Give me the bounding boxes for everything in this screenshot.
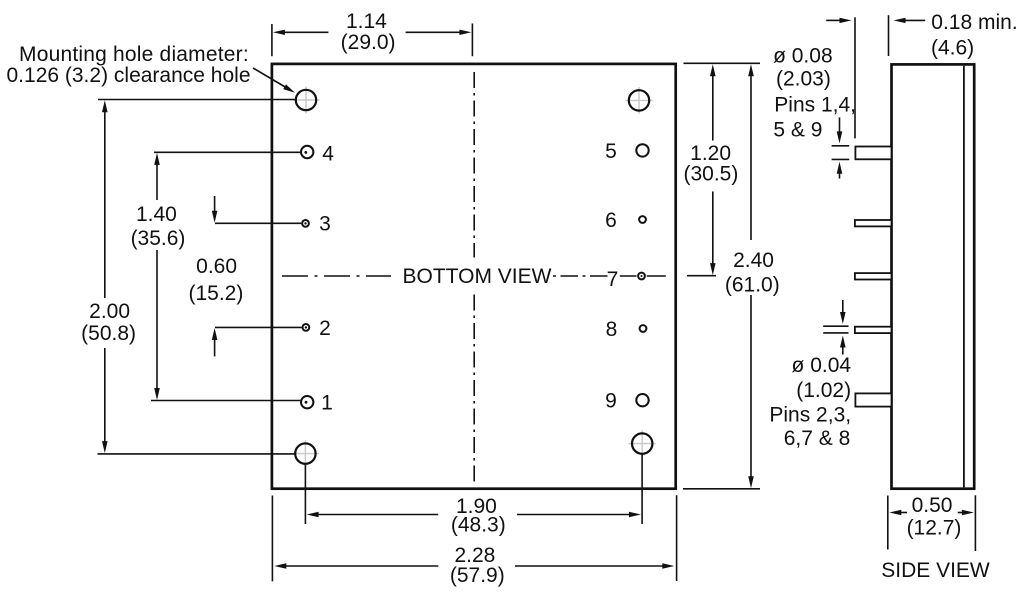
dim 2.28 extension line right — [676, 495, 678, 581]
dim 2.40 line lower — [750, 295, 752, 479]
pin 4 — [301, 146, 313, 158]
extension line hole top-left — [98, 99, 296, 101]
dia 0.04 arrow down — [840, 312, 846, 324]
side pin row4 — [855, 327, 892, 333]
extension line pin 3 — [215, 222, 301, 224]
svg-text:6,7 & 8: 6,7 & 8 — [784, 427, 851, 450]
svg-text:5: 5 — [605, 140, 617, 163]
wire centerline circle-to-edge — [647, 275, 666, 277]
horizontal centerline left segment — [282, 275, 391, 277]
dim 0.60 stub upper — [214, 196, 216, 212]
mounting hole bottom-right crosshair — [629, 430, 656, 457]
dia 0.08 tick top — [832, 145, 850, 147]
dim 1.14 line right — [406, 31, 464, 33]
svg-text:(61.0): (61.0) — [725, 274, 780, 297]
pin 5 — [636, 144, 648, 156]
dim 0.50 arrow left — [889, 510, 901, 515]
svg-text:Mounting hole diameter:: Mounting hole diameter: — [19, 43, 249, 66]
leader arrowhead — [283, 84, 295, 92]
extension line pin 1 — [151, 400, 300, 402]
svg-text:8: 8 — [606, 318, 618, 341]
dim 1.40 line upper — [156, 162, 158, 200]
dim 1.14 arrow right — [459, 30, 471, 35]
dim 0.18 left arrow — [840, 18, 852, 23]
wire centerline 7-to-circle — [620, 275, 637, 277]
extension line hole bottom-left — [98, 453, 295, 455]
dim 0.50 extension line right — [974, 495, 976, 551]
svg-text:0.60: 0.60 — [196, 255, 237, 278]
dim 2.28 arrow right — [662, 563, 674, 568]
extension line pin 2 — [215, 326, 302, 328]
dia 0.04 arrow up stub — [842, 347, 844, 355]
svg-text:ø 0.04: ø 0.04 — [792, 354, 852, 377]
dia 0.04 tick bottom — [823, 332, 848, 334]
svg-text:BOTTOM VIEW: BOTTOM VIEW — [403, 265, 552, 288]
dim 1.20 arrow up — [710, 64, 716, 76]
dim 0.18 right line — [904, 19, 925, 21]
dia 0.08 tick bottom — [832, 158, 850, 160]
pin 8 — [640, 325, 647, 332]
dia 0.04 tick top — [823, 325, 848, 327]
svg-text:(50.8): (50.8) — [81, 322, 136, 345]
svg-text:Pins 2,3,: Pins 2,3, — [769, 404, 851, 427]
leader line hole bottom-left to 1.90 — [304, 464, 306, 524]
dia 0.08 arrow up — [837, 162, 843, 174]
dia 0.08 arrow up stub — [839, 172, 841, 179]
side pin row5 — [855, 393, 891, 406]
pin 7 — [638, 273, 645, 280]
dim 1.20 line lower — [712, 192, 714, 267]
side pin row2 — [855, 220, 892, 226]
dim 2.40 line upper — [750, 74, 752, 240]
dim 2.28 arrow left — [274, 563, 286, 568]
svg-text:9: 9 — [605, 390, 617, 413]
svg-text:(2.03): (2.03) — [776, 67, 831, 90]
pin 3 — [302, 220, 309, 227]
svg-text:4: 4 — [322, 143, 334, 166]
svg-text:5 & 9: 5 & 9 — [773, 118, 822, 141]
svg-text:2.40: 2.40 — [733, 249, 774, 272]
svg-text:(29.0): (29.0) — [341, 31, 396, 54]
dim 1.14 arrow left — [273, 30, 285, 35]
dia 0.04 arrow up — [840, 336, 846, 348]
dim 2.40 arrow up — [748, 64, 754, 76]
pin 1 — [301, 396, 313, 408]
dim 1.90 arrow right — [629, 512, 641, 517]
dia 0.08 arrow down — [837, 131, 843, 143]
svg-text:(15.2): (15.2) — [188, 282, 243, 305]
dim 1.20 line upper — [712, 74, 714, 141]
dim 1.20 arrow down — [710, 263, 716, 275]
dim 0.18 extension line pin tip — [854, 17, 856, 138]
dim 0.18 right arrow — [894, 18, 906, 23]
svg-text:SIDE VIEW: SIDE VIEW — [881, 559, 990, 582]
dim 1.14 line left — [280, 31, 328, 33]
svg-text:(1.02): (1.02) — [796, 379, 851, 402]
svg-text:ø 0.08: ø 0.08 — [773, 45, 833, 68]
svg-text:(57.9): (57.9) — [450, 564, 505, 587]
side view inner edge line — [963, 66, 965, 488]
extension line centerline right — [687, 275, 716, 277]
svg-text:(30.5): (30.5) — [683, 163, 738, 186]
dia 0.04 arrow down stub — [842, 300, 844, 314]
mounting hole top-right crosshair — [626, 87, 653, 114]
svg-text:1: 1 — [321, 391, 333, 414]
svg-text:(4.6): (4.6) — [931, 37, 974, 60]
svg-text:2: 2 — [319, 317, 331, 340]
svg-text:1.40: 1.40 — [136, 203, 177, 226]
dim 1.14 extension line right — [471, 24, 473, 57]
mounting hole bottom-left — [295, 443, 315, 463]
svg-text:0.50: 0.50 — [912, 494, 953, 517]
svg-text:(48.3): (48.3) — [451, 514, 506, 537]
dim 1.90 line right — [517, 514, 634, 516]
dia 0.08 arrow down stub — [839, 117, 841, 133]
pin 9 — [636, 394, 648, 406]
vertical centerline — [473, 72, 475, 258]
horizontal centerline right segment — [553, 275, 608, 277]
dim 0.18 left line — [826, 19, 842, 21]
side pin row3 — [855, 273, 892, 279]
leader line hole bottom-right to 1.90 — [641, 454, 643, 524]
svg-text:2.00: 2.00 — [89, 300, 130, 323]
dim 1.90 arrow left — [307, 512, 319, 517]
dim 2.28 line left — [281, 565, 438, 567]
dim 0.60 arrow down — [212, 211, 218, 223]
dim 0.50 right line — [958, 512, 963, 514]
svg-text:7: 7 — [607, 268, 619, 291]
dim 2.00 arrow down — [102, 441, 108, 453]
dim 2.28 line right — [515, 565, 667, 567]
svg-text:6: 6 — [605, 209, 617, 232]
mounting hole bottom-right — [632, 433, 652, 453]
dim 2.00 line lower — [104, 348, 106, 444]
mounting hole top-right — [629, 90, 649, 110]
side pin row1 (pins 1,4,5,9) — [855, 147, 891, 160]
dim 2.00 line upper — [104, 110, 106, 298]
svg-text:1.14: 1.14 — [346, 10, 387, 33]
mounting hole top-left — [296, 90, 316, 110]
dim 2.40 arrow down — [748, 476, 754, 488]
dim 0.60 arrow up — [212, 328, 218, 340]
extension line box bottom-right — [683, 488, 760, 490]
dim 0.50 left line — [900, 512, 907, 514]
dim 0.18 extension line body edge — [888, 15, 890, 56]
extension line box top-right — [684, 62, 761, 64]
pin 2 — [303, 324, 310, 331]
dim 1.14 extension line left — [271, 24, 273, 56]
dim 1.40 line lower — [156, 250, 158, 391]
extension line pin 4 — [154, 151, 300, 153]
pin 6 — [639, 216, 646, 223]
svg-text:0.126 (3.2) clearance hole: 0.126 (3.2) clearance hole — [7, 64, 251, 87]
dim 1.40 arrow up — [154, 153, 160, 165]
mounting hole bottom-left crosshair — [292, 440, 319, 467]
side view body — [892, 64, 975, 488]
dim 2.28 extension line left — [271, 496, 273, 582]
dim 1.40 arrow down — [154, 388, 160, 400]
dim 2.00 arrow up — [102, 100, 108, 112]
bottom view package outline — [272, 64, 676, 489]
dim 0.50 extension line left — [887, 496, 889, 550]
svg-text:(35.6): (35.6) — [131, 227, 186, 250]
svg-text:0.18 min.: 0.18 min. — [931, 11, 1017, 34]
svg-text:(12.7): (12.7) — [907, 517, 962, 540]
dim 0.50 arrow right — [962, 510, 974, 515]
leader line mounting hole note — [253, 68, 286, 88]
dim 1.90 line left — [313, 514, 438, 516]
svg-text:3: 3 — [319, 213, 331, 236]
dim 0.60 stub lower — [214, 339, 216, 356]
svg-text:Pins 1,4,: Pins 1,4, — [774, 94, 856, 117]
mounting hole top-left crosshair — [293, 87, 320, 114]
